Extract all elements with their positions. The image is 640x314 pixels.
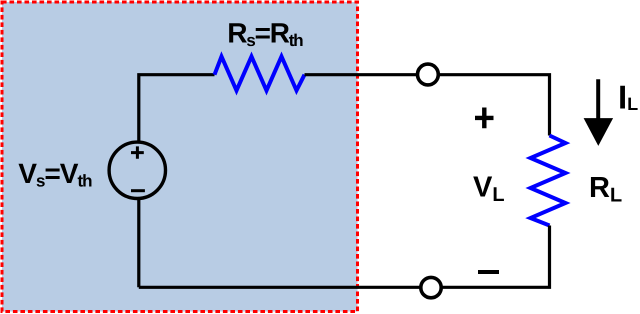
wire top segment to right vertical — [305, 75, 550, 136]
resistor Rs zigzag — [215, 57, 305, 91]
voltage source plus sign — [131, 146, 144, 158]
current arrow IL shaft — [596, 79, 600, 122]
wire bottom segment — [139, 226, 550, 288]
terminal a (top open circle) — [418, 64, 439, 85]
label plus at load — [475, 108, 494, 129]
label VL — [473, 177, 504, 201]
label Vs=Vth — [18, 164, 91, 187]
voltage source minus sign — [131, 189, 145, 192]
label minus at load — [478, 270, 499, 274]
current arrow IL head — [584, 118, 614, 146]
wire left vertical and top-left segment — [139, 75, 215, 288]
label RL — [591, 177, 622, 201]
thevenin source region shaded box — [2, 2, 358, 312]
terminal b (bottom open circle) — [421, 277, 441, 297]
label Rs=Rth — [229, 23, 302, 46]
voltage source Vs circle — [109, 142, 165, 198]
resistor RL zigzag — [531, 136, 566, 226]
label IL — [620, 86, 637, 110]
